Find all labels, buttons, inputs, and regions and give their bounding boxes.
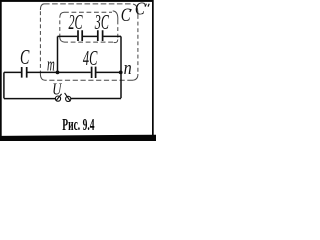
terminal left: circle with slash (55, 96, 60, 101)
inner box corner arcs (60, 12, 64, 17)
dashed box C'' (outer) : edges (40, 4, 138, 80)
node m junction dot (56, 71, 60, 75)
wire: capacitor C to node m (28, 71, 58, 73)
svg-text:3C: 3C (94, 11, 109, 34)
dashed box C' (inner) : edges (60, 11, 118, 43)
wire: 3C to box top-right corner (103, 35, 121, 37)
wire: 4C to node n (96, 71, 121, 73)
terminal right: circle with backslash (66, 96, 71, 101)
capacitor 3C plates (98, 30, 103, 41)
capacitor 2C plates (78, 30, 82, 41)
svg-text:C: C (121, 4, 131, 25)
capacitor C plates (22, 67, 27, 78)
wire: between 2C and 3C (83, 35, 97, 37)
wire: node m to 4C (58, 71, 91, 73)
svg-text:U: U (52, 81, 62, 99)
svg-text:Рис. 9.4: Рис. 9.4 (62, 115, 94, 133)
svg-text:n: n (124, 57, 132, 78)
wire: bottom wire left of terminals (4, 98, 56, 100)
wire: box top edge to 2C (58, 35, 78, 37)
svg-text:2C: 2C (69, 11, 84, 34)
wire: left vertical of main loop (3, 72, 5, 98)
wire: top-left wire to capacitor C (4, 71, 21, 73)
wire: right vertical of main loop (120, 72, 122, 98)
capacitor 4C plates (92, 67, 96, 78)
wire: upper branch left vertical m up (57, 36, 59, 72)
svg-text:m: m (47, 54, 55, 75)
svg-text:4C: 4C (83, 47, 98, 70)
outer box corner arcs (40, 4, 44, 10)
wire: bottom wire right of terminals (71, 98, 121, 100)
svg-text:C: C (20, 45, 30, 68)
node n junction dot (119, 71, 123, 75)
svg-text:C: C (135, 0, 145, 19)
wire: upper branch right vertical down to n (120, 36, 122, 72)
